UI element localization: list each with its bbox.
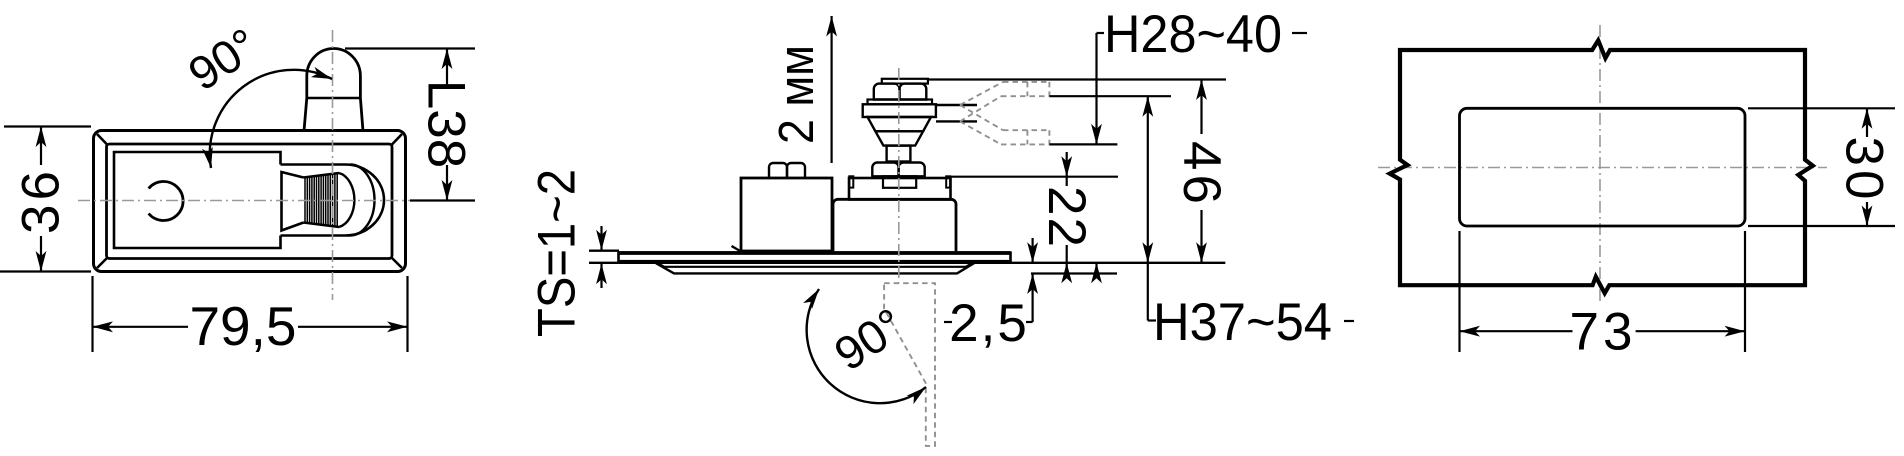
dim 79.5 extension left	[91, 276, 93, 352]
bezel corner chamfer bottom-left	[97, 257, 108, 268]
stud boss in plate	[883, 176, 916, 188]
centerline solid extension right	[410, 199, 475, 201]
svg-text:73: 73	[1570, 303, 1637, 362]
bezel corner chamfer top-right	[391, 134, 402, 146]
bottom hex nut	[872, 163, 898, 177]
dim H28~40 leader	[1095, 33, 1097, 144]
handle cup inner wall arc	[350, 165, 375, 236]
svg-text:TS=1~2: TS=1~2	[528, 169, 587, 337]
pawl arm solid top edge	[936, 104, 977, 106]
ref line washer top	[950, 176, 1118, 178]
dim H37~54	[1147, 96, 1149, 263]
bezel inner edge	[107, 144, 393, 259]
cone seal upper	[868, 117, 932, 131]
left block chamfer foot	[732, 246, 742, 252]
svg-text:2,5: 2,5	[949, 294, 1029, 353]
dim 30 extension top	[1748, 107, 1895, 109]
panel bottom face	[589, 262, 1225, 264]
handle nose arc	[339, 173, 354, 227]
90deg open arc	[807, 289, 926, 403]
knob collar line	[307, 97, 361, 100]
knob (wing lever raised, top view)	[304, 49, 363, 131]
dim TS arrows	[600, 226, 602, 250]
dim L38 extension top	[345, 47, 475, 49]
ref line ghost top bottom	[1049, 95, 1171, 97]
body lip below panel	[656, 263, 974, 273]
dim 73 extension left	[1458, 231, 1460, 352]
handle cup flange	[281, 165, 385, 236]
left block (lock case)	[741, 178, 832, 251]
ghost pawl upper branch	[960, 82, 1049, 122]
ref line ghost lower bottom	[1049, 143, 1117, 145]
stud mounting plate	[849, 178, 951, 200]
handle grip outline	[282, 172, 304, 231]
collar / pawl hub	[863, 104, 936, 117]
latch body outer bezel	[94, 131, 406, 272]
right block (nut housing)	[833, 199, 956, 251]
pawl arm solid bottom edge	[936, 120, 977, 122]
ghost pawl lower branch	[960, 105, 1049, 144]
svg-text:L38: L38	[417, 80, 476, 168]
vertical centerline	[332, 30, 334, 300]
svg-text:H37~54: H37~54	[1153, 293, 1332, 352]
svg-text:79,5: 79,5	[189, 295, 296, 357]
svg-text:2 мм: 2 мм	[770, 45, 824, 144]
cone seal lower	[875, 131, 923, 145]
dim 22	[1066, 152, 1068, 177]
dim 30 line	[1866, 108, 1868, 137]
plate tab left	[849, 176, 853, 187]
horizontal centerline	[78, 200, 410, 202]
ref line lip bottom	[1031, 272, 1117, 274]
dim 73 line	[1460, 330, 1573, 332]
latch flange	[619, 253, 1011, 262]
dim 79.5 extension right	[406, 276, 408, 352]
dim L38 line	[446, 49, 448, 87]
stud centerline	[898, 68, 900, 283]
stud stem	[887, 146, 911, 162]
dim 30 extension bottom	[1748, 225, 1895, 227]
panel outline with break marks	[1390, 40, 1813, 293]
dim 36 extension top	[4, 125, 91, 127]
dim 79.5 line	[93, 326, 189, 328]
arc arrow down	[202, 147, 216, 169]
lip inner line	[659, 264, 972, 267]
dim 2,5	[1031, 238, 1033, 263]
svg-text:36: 36	[12, 167, 71, 234]
left block rivet 1	[769, 163, 787, 178]
dim 36 extension bottom	[0, 270, 91, 272]
90deg rotation arc	[210, 70, 332, 168]
dim 36 line	[40, 127, 42, 166]
ref line pawl top	[928, 78, 1226, 80]
ghost pawl hanging open below	[884, 283, 935, 446]
panel top face left	[589, 249, 619, 251]
top washer	[868, 100, 933, 105]
handle grip top edge	[304, 173, 340, 178]
vertical centerline	[1599, 25, 1601, 305]
svg-text:46: 46	[1172, 141, 1231, 208]
dim 2mm travel arrow	[830, 16, 832, 163]
cutout rounded rect	[1460, 108, 1746, 226]
bezel corner chamfer bottom-right	[391, 257, 402, 268]
bezel corner chamfer top-left	[97, 134, 108, 146]
svg-text:22: 22	[1037, 186, 1096, 249]
svg-text:90°: 90°	[179, 17, 267, 100]
plate tab right	[946, 176, 950, 187]
pawl arm plate (top)	[882, 79, 928, 84]
keyhole C circle	[149, 181, 183, 220]
svg-text:30: 30	[1835, 137, 1894, 204]
recess pan	[114, 152, 281, 248]
top hex nut	[874, 84, 900, 100]
arc arrow at knob	[311, 67, 334, 84]
handle grip bottom edge	[304, 223, 340, 228]
svg-text:90°: 90°	[825, 297, 913, 380]
svg-text:H28~40: H28~40	[1104, 5, 1282, 64]
left block rivet 2	[787, 163, 805, 178]
dim 46	[1200, 80, 1202, 135]
flange top edge thick	[619, 251, 1011, 255]
horizontal centerline	[1378, 167, 1827, 169]
dim 73 extension right	[1744, 231, 1746, 352]
grip knurl hatch	[305, 174, 337, 227]
